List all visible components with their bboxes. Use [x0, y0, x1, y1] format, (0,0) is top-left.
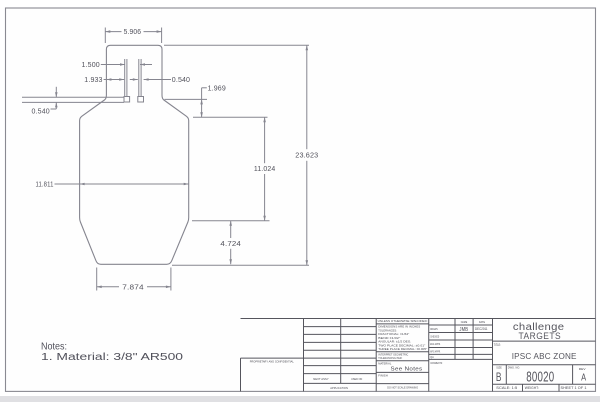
- svg-text:5.906: 5.906: [124, 27, 142, 36]
- svg-text:11.811: 11.811: [36, 180, 54, 189]
- svg-text:DO NOT SCALE DRAWING: DO NOT SCALE DRAWING: [387, 385, 418, 389]
- svg-text:80020: 80020: [526, 369, 554, 385]
- svg-text:QA: QA: [430, 355, 434, 359]
- svg-text:FINISH: FINISH: [378, 373, 388, 377]
- svg-text:DEC2011: DEC2011: [475, 327, 488, 331]
- svg-text:IPSC ABC ZONE: IPSC ABC ZONE: [512, 351, 577, 361]
- svg-text:ENG APPR.: ENG APPR.: [430, 342, 441, 346]
- svg-text:23.623: 23.623: [295, 151, 318, 160]
- svg-text:NEXT ASSY: NEXT ASSY: [313, 377, 329, 381]
- svg-text:1.933: 1.933: [84, 75, 102, 84]
- svg-text:COMMENTS:: COMMENTS:: [430, 361, 443, 365]
- svg-text:0.540: 0.540: [172, 75, 190, 84]
- svg-text:DRAWN: DRAWN: [430, 327, 438, 331]
- svg-text:DATE: DATE: [479, 320, 485, 324]
- svg-text:SCALE: 1:5: SCALE: 1:5: [496, 386, 517, 390]
- svg-text:TOLERANCING PER:: TOLERANCING PER:: [378, 356, 402, 360]
- svg-text:JMB: JMB: [459, 327, 468, 333]
- svg-text:USED ON: USED ON: [351, 377, 362, 381]
- svg-text:DWG. NO.: DWG. NO.: [508, 366, 520, 370]
- svg-text:SIZE: SIZE: [496, 366, 502, 370]
- svg-text:MATERIAL: MATERIAL: [378, 361, 391, 365]
- svg-text:A: A: [581, 373, 586, 384]
- svg-text:PROPRIETARY AND CONFIDENTIAL: PROPRIETARY AND CONFIDENTIAL: [250, 359, 294, 363]
- svg-text:SHEET 1 OF 1: SHEET 1 OF 1: [561, 386, 587, 390]
- svg-text:0.540: 0.540: [32, 106, 50, 115]
- svg-text:1.500: 1.500: [82, 60, 100, 69]
- svg-text:1.969: 1.969: [208, 83, 226, 92]
- svg-text:11.024: 11.024: [254, 164, 276, 173]
- svg-text:See Notes: See Notes: [391, 366, 423, 372]
- svg-text:1. Material: 3/8" AR500: 1. Material: 3/8" AR500: [41, 352, 184, 363]
- svg-text:THREE PLACE DECIMAL: ±0.005": THREE PLACE DECIMAL: ±0.005": [378, 347, 427, 351]
- svg-text:NAME: NAME: [461, 320, 468, 324]
- svg-text:UNLESS OTHERWISE SPECIFIED:: UNLESS OTHERWISE SPECIFIED:: [378, 319, 428, 323]
- svg-text:4.724: 4.724: [220, 239, 241, 248]
- svg-text:WEIGHT:: WEIGHT:: [525, 386, 539, 390]
- svg-text:CHECKED: CHECKED: [430, 335, 439, 339]
- svg-text:REV: REV: [579, 367, 586, 371]
- svg-text:APPLICATION: APPLICATION: [330, 386, 348, 390]
- svg-text:TITLE:: TITLE:: [494, 343, 501, 347]
- svg-text:MFG APPR.: MFG APPR.: [430, 349, 441, 353]
- svg-text:7.874: 7.874: [122, 282, 144, 291]
- svg-text:B: B: [496, 372, 502, 384]
- svg-text:TARGETS: TARGETS: [519, 331, 562, 342]
